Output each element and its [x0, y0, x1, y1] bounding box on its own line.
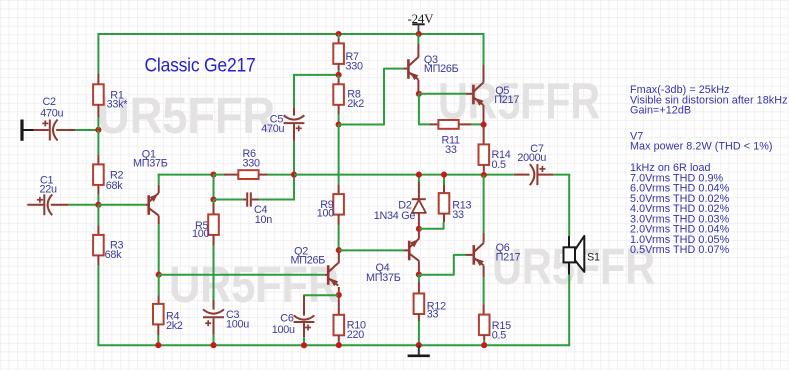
label C2	[40, 96, 63, 120]
wire Q3 node down to R11	[419, 94, 429, 125]
label R6	[243, 148, 261, 169]
node junction R10 bottom	[336, 342, 342, 348]
label C7	[517, 143, 546, 164]
node junction Q5-collector/R11/R14	[481, 122, 487, 128]
label C5	[261, 114, 284, 135]
svg-text:S1: S1	[587, 251, 600, 263]
label R12	[427, 301, 446, 321]
node junction Q1-collector/R4	[156, 272, 162, 278]
wire Q3 emitter up	[417, 34, 419, 57]
wire Q2 node to Q4 base	[339, 249, 408, 251]
node junction R8/Q3-base/R9	[336, 121, 342, 127]
wire Q3 node to Q5 base	[419, 93, 472, 95]
node junction C1/R2/R3/Q1-base	[95, 202, 101, 208]
label R2	[106, 170, 124, 192]
capacitor C7	[514, 164, 553, 185]
node junction D2 top (mid rail)	[416, 172, 422, 178]
label Q3	[424, 54, 459, 75]
svg-text:68k: 68k	[105, 249, 123, 261]
node junction R7/R8/C5	[336, 72, 342, 78]
label R5	[192, 220, 210, 240]
wire mid output rail	[294, 174, 514, 176]
label R4	[166, 311, 183, 332]
wire Q4 node to Q6 base	[419, 255, 473, 275]
wire Q1 top corner to node A	[158, 174, 214, 176]
svg-text:100: 100	[192, 228, 210, 240]
label R15	[492, 320, 511, 342]
svg-text:П217: П217	[494, 94, 519, 106]
svg-text:33: 33	[452, 209, 464, 221]
note version and power text	[630, 130, 773, 152]
node junction Q2-emitter/C6/R10	[336, 292, 342, 298]
svg-text:470u: 470u	[261, 123, 284, 135]
resistor R4	[153, 275, 164, 345]
svg-text:МП37Б: МП37Б	[366, 272, 401, 284]
label R14	[492, 149, 511, 171]
svg-text:2k2: 2k2	[347, 98, 364, 110]
capacitor C5	[284, 108, 305, 176]
speaker S1	[564, 236, 585, 275]
capacitor C1	[27, 194, 69, 215]
node junction R15 bottom	[481, 342, 487, 348]
capacitor C2	[34, 120, 76, 141]
node junction R7 top	[336, 31, 342, 37]
svg-text:33: 33	[427, 308, 439, 320]
node junction C6 bottom	[301, 342, 307, 348]
transistor Q6	[474, 243, 484, 266]
wire Q3 collector down	[417, 80, 419, 92]
svg-text:UR5FFR: UR5FFR	[97, 87, 275, 144]
wire node to Q2 base	[159, 274, 327, 276]
svg-text:2k2: 2k2	[166, 320, 183, 332]
node junction output (R14/C7)	[481, 172, 487, 178]
label C1	[40, 175, 58, 196]
label D2	[374, 200, 416, 222]
wire Q2 emitter down	[338, 287, 340, 292]
svg-text:68k: 68k	[106, 180, 124, 192]
resistor R9	[333, 184, 344, 250]
resistor R3	[93, 205, 104, 345]
node junction -24V supply	[416, 31, 422, 37]
node junction C (C5/R6/C4 on mid rail)	[291, 172, 297, 178]
svg-text:100u: 100u	[272, 324, 295, 336]
label R7	[346, 51, 364, 72]
svg-text:C6: C6	[280, 313, 294, 325]
transistor Q3	[408, 57, 418, 80]
wire Q2 collector up	[338, 253, 340, 264]
svg-text:220: 220	[347, 329, 365, 341]
wire top rail right corner	[483, 33, 485, 35]
input terminal (C2 side)	[22, 120, 34, 141]
node junction R13 top (mid rail)	[441, 172, 447, 178]
wire Q6 collector up	[483, 175, 485, 243]
transistor Q1	[149, 193, 159, 216]
svg-text:100u: 100u	[226, 318, 249, 330]
node junction B (C4 left / R5 top)	[210, 196, 216, 202]
label C4	[254, 204, 272, 226]
note THD measurements text	[630, 162, 730, 256]
wire top -24V rail	[98, 33, 483, 35]
resistor R11	[429, 120, 483, 129]
svg-text:10n: 10n	[255, 214, 273, 226]
resistor R12	[414, 275, 425, 346]
wire Q5 collector down	[483, 105, 485, 122]
wire speaker down to rail	[568, 275, 570, 347]
svg-text:22u: 22u	[40, 183, 58, 195]
wire R7-R8 node to C5	[294, 74, 339, 108]
wire C1 to node	[69, 204, 99, 206]
label Q1	[133, 148, 168, 169]
resistor R7	[333, 34, 344, 75]
svg-text:C2: C2	[43, 96, 57, 108]
svg-text:МП26Б: МП26Б	[291, 255, 326, 267]
label R13	[452, 200, 471, 221]
wire Q5 emitter up	[483, 33, 485, 83]
transistor Q5	[473, 83, 483, 106]
label R11	[442, 134, 461, 155]
wire C7 to speaker column	[553, 175, 570, 236]
transistor Q4	[409, 239, 419, 262]
svg-text:330: 330	[243, 157, 261, 169]
node junction A (R6 left)	[210, 172, 216, 178]
resistor R1	[93, 74, 104, 129]
node junction C3 bottom	[210, 342, 216, 348]
label Q6	[496, 242, 521, 264]
note frequency response text	[630, 84, 788, 117]
node junction ground node	[416, 342, 422, 348]
svg-text:Max power 8.2W (THD < 1%): Max power 8.2W (THD < 1%)	[630, 141, 773, 153]
svg-text:МП26Б: МП26Б	[424, 63, 459, 75]
wire R8 node down to R9	[338, 125, 340, 185]
wire left column top (to R1)	[97, 33, 99, 75]
svg-text:0.5: 0.5	[492, 159, 507, 171]
wire R8 node to Q3 base	[339, 69, 408, 125]
wire C2 to node	[75, 129, 98, 131]
watermark UR5FFR 2	[438, 73, 600, 130]
wire C4 right to node C	[259, 175, 294, 201]
svg-text:0.5Vrms THD 0.07%: 0.5Vrms THD 0.07%	[630, 244, 730, 256]
node junction Q4-collector/R12	[416, 271, 422, 277]
power -24V symbol	[408, 11, 435, 32]
capacitor C6	[294, 295, 338, 345]
label R8	[347, 89, 364, 111]
wire bottom ground rail	[97, 344, 569, 346]
wire node A down	[213, 175, 215, 200]
title Classic Ge217	[145, 54, 256, 76]
label C3	[226, 309, 249, 331]
label C6	[272, 313, 295, 336]
label Q5	[494, 85, 519, 106]
wire Q4 emitter up	[418, 232, 420, 239]
svg-text:МП37Б: МП37Б	[133, 158, 168, 170]
node junction D2/R13/Q4	[416, 226, 422, 232]
label R10	[347, 320, 366, 342]
label S1	[587, 251, 600, 263]
svg-text:Classic Ge217: Classic Ge217	[145, 54, 256, 76]
wire Q1 emitter up	[158, 174, 160, 193]
svg-text:330: 330	[346, 60, 364, 72]
label R9	[317, 199, 335, 219]
svg-text:1N34 Ge: 1N34 Ge	[374, 210, 416, 222]
node junction R4 bottom	[155, 342, 161, 348]
wire Q1 collector down	[158, 216, 160, 275]
resistor R5	[208, 200, 219, 301]
resistor R6	[214, 170, 295, 179]
node junction R9/Q2-collector/Q4-base	[336, 247, 342, 253]
transistor Q2	[328, 263, 338, 286]
node junction C2/R1/R2	[95, 127, 101, 133]
svg-text:2000u: 2000u	[517, 152, 546, 164]
resistor R8	[333, 75, 344, 125]
wire Q4 collector down	[418, 261, 420, 272]
diode D2	[412, 175, 426, 226]
capacitor C3	[203, 300, 224, 345]
wire Q6 emitter down	[483, 266, 485, 305]
resistor R15	[479, 304, 490, 345]
resistor R2	[93, 130, 104, 205]
label Q2	[291, 245, 326, 266]
watermark UR5FFR 4	[492, 238, 655, 295]
svg-text:33: 33	[445, 144, 457, 156]
svg-text:470u: 470u	[40, 108, 63, 120]
label Q4	[366, 262, 401, 284]
resistor R14	[479, 125, 490, 175]
node junction Q3/Q5-base/R11	[416, 91, 422, 97]
label R1	[107, 90, 129, 111]
watermark UR5FFR 3	[169, 256, 339, 313]
label R3	[105, 240, 124, 262]
capacitor C4	[243, 192, 259, 206]
resistor R10	[334, 295, 345, 345]
resistor R13	[419, 175, 449, 229]
watermark UR5FFR 1	[97, 87, 275, 144]
svg-text:Gain=+12dB: Gain=+12dB	[630, 105, 691, 117]
svg-text:П217: П217	[496, 252, 521, 264]
ground symbol	[408, 345, 430, 356]
svg-text:100: 100	[317, 207, 335, 219]
svg-text:0.5: 0.5	[492, 329, 507, 341]
wire node B to C4	[214, 199, 243, 201]
wire node to Q1 base	[98, 204, 148, 206]
svg-text:33k*: 33k*	[107, 99, 129, 111]
